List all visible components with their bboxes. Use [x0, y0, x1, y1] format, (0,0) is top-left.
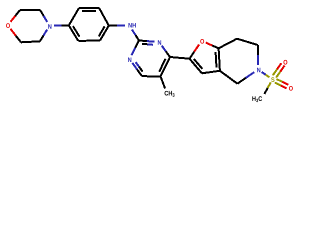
- wire: benzene edge: [99, 8, 109, 26]
- wire: benzene left double bond: [69, 25, 80, 41]
- wire: NH to pyrimidine C2 bond: [132, 30, 139, 41]
- wire: pyrimidine C4 to furan C2 bond: [170, 57, 190, 59]
- wire: phenyl to NH bond: [109, 25, 125, 27]
- node: morpholine N atom label: [48, 24, 51, 29]
- wire: benzene bottom edge: [78, 40, 100, 42]
- wire: morpholine O-C bond: [11, 10, 21, 22]
- wire: ring C6-N5 bond: [257, 45, 259, 65]
- wire: benzene edge: [69, 8, 79, 25]
- wire: furan fusion C7a=C3a double bond: [216, 48, 220, 71]
- node: NH linker label: [128, 23, 135, 28]
- wire: S=O upper double bond: [273, 63, 285, 77]
- wire: furan C3=C2 double bond: [190, 59, 203, 74]
- wire: pyrimidine C2=N3 double bond: [139, 41, 155, 45]
- wire: pyrimidine C6=N1 double bond: [132, 62, 142, 76]
- wire: morpholine C-O bond: [11, 29, 22, 43]
- wire: furan C2-O bond: [190, 45, 200, 59]
- node: sulfonyl lower O atom label: [289, 86, 293, 91]
- node: methyl H3C label on sulfonyl: [252, 96, 262, 102]
- wire: S-CH3 bond: [264, 82, 270, 94]
- wire: morpholine N-C bond: [40, 30, 47, 42]
- wire: benzene right double bond: [99, 26, 109, 41]
- wire: pyrimidine N3-C4 bond: [162, 46, 170, 57]
- node: furan O atom label: [200, 39, 204, 44]
- wire: morpholine bottom C-C bond: [21, 41, 40, 42]
- node: methyl CH3 label on pyrimidine C5: [165, 91, 175, 97]
- wire: pyrimidine C4=C5 double bond: [159, 57, 170, 76]
- node: sulfonyl upper O atom label: [283, 60, 287, 65]
- wire: morpholine C-N bond: [40, 10, 47, 22]
- wire: pyrimidine N1-C2 bond: [132, 41, 139, 56]
- wire: furan C3a-C3 bond: [202, 71, 220, 74]
- wire: N5-S bond: [262, 72, 270, 77]
- node: sulfonyl S atom label: [271, 77, 274, 82]
- wire: furan O-C7a bond: [206, 43, 219, 49]
- wire: ring C7a-C7 bond: [219, 39, 237, 49]
- wire: morpholine N to phenyl bond: [54, 24, 69, 26]
- wire: C5 to methyl bond: [161, 76, 166, 88]
- node: piperidine N5 atom label: [257, 68, 260, 73]
- chemical structure diagram: morpholino-phenyl-amino-pyrimidine with methylsulfonyl tetrahydrofuropyridine: [0, 0, 300, 110]
- node: morpholine O atom label: [6, 23, 10, 28]
- wire: pyrimidine C5-C6 bond: [142, 75, 161, 77]
- wire: ring C7-C6 bond: [237, 39, 258, 45]
- wire: morpholine top C-C bond: [20, 9, 40, 11]
- node: pyrimidine N1 atom label: [128, 57, 131, 62]
- node: pyrimidine N3 atom label: [158, 40, 161, 45]
- wire: ring N5-C4 bond: [237, 72, 254, 84]
- wire: S=O lower double bond: [275, 79, 289, 88]
- wire: ring C4-C3a bond: [220, 71, 238, 84]
- wire: benzene top double bond: [79, 8, 99, 11]
